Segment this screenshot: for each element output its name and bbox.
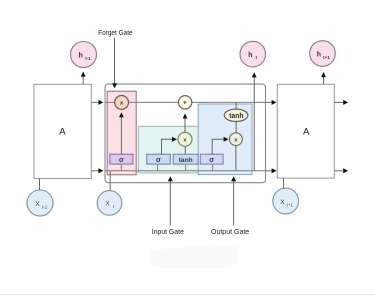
svg-text:σ: σ (156, 155, 161, 164)
node h[t+1] (310, 41, 336, 67)
output gate region (blue) (198, 104, 252, 175)
wire: A-left top to h[t-1] arrow (81, 71, 86, 84)
svg-text:t-1: t-1 (85, 56, 91, 61)
wire: h-line to tanh box (185, 164, 187, 171)
svg-text:tanh: tanh (229, 113, 243, 120)
svg-text:A: A (59, 126, 66, 137)
wire: Output Gate pointer arrow (231, 176, 236, 225)
node X[t] (97, 191, 122, 216)
block A left (34, 84, 91, 178)
wire: A-left to h-line arrow (91, 168, 103, 173)
input gate region (cyan) (138, 126, 198, 173)
wire: cell state C line (top horizontal) (105, 101, 266, 103)
svg-text:σ: σ (209, 155, 214, 164)
wire: h-line to sigma2 (157, 164, 159, 171)
wire: A-left to C-line arrow (91, 100, 103, 105)
node h[t-1] (71, 42, 97, 68)
wire: C-line branch down to tanh ellipse (235, 102, 237, 109)
wire: h-line exit to A-right arrow (266, 168, 277, 173)
node X[t+1] (273, 188, 299, 214)
wire: h_t riser from h-line up (252, 72, 257, 171)
svg-text:h: h (317, 52, 321, 59)
svg-text:t+1: t+1 (287, 202, 294, 207)
node X[t-1] (27, 190, 53, 216)
svg-text:t-1: t-1 (42, 204, 48, 209)
wire: tanh ellipse down to output multiply (235, 121, 237, 133)
bottom hairline (0, 294, 375, 295)
wire: output multiply down to h-line (235, 146, 237, 171)
wire: sigma2 elbow to input multiply arrow (162, 137, 178, 154)
svg-text:Output Gate: Output Gate (211, 227, 249, 236)
wire: X[t+1] to A-right (283, 178, 285, 188)
wire: C-line exit to A-right arrow (266, 100, 277, 105)
LSTM cell rectangle (105, 84, 266, 183)
wire: input multiply up to plus arrow (183, 114, 188, 133)
svg-text:h: h (79, 53, 83, 60)
tanh box (input) (173, 154, 198, 164)
wire: sigma1 up to forget multiply arrow (119, 112, 124, 154)
wire: h-line to sigma3 (212, 164, 214, 171)
forget gate region (pink) (107, 91, 136, 175)
block A right (277, 84, 334, 178)
svg-text:tanh: tanh (179, 157, 193, 164)
wire: hidden state h line (bottom horizontal) (105, 170, 266, 172)
sigma box 1 (forget) (110, 154, 133, 164)
wire: X[t] riser to h-line (109, 171, 111, 191)
plus node (178, 96, 191, 109)
svg-text:X: X (105, 201, 110, 208)
wire: A-right C output arrow (334, 100, 348, 105)
multiply node (input gate) (178, 132, 192, 146)
svg-text:t+1: t+1 (323, 55, 330, 60)
svg-text:Forget Gate: Forget Gate (98, 28, 133, 37)
wire: tanh box up to input multiply arrow (184, 146, 186, 154)
wire: Forget Gate pointer arrow (112, 38, 117, 89)
sigma box 3 (output) (200, 154, 223, 164)
wire: A-right h output arrow (334, 168, 348, 173)
svg-text:X: X (280, 199, 285, 206)
wire: h-line to sigma1 (120, 164, 122, 171)
sigma box 2 (input) (147, 154, 171, 164)
svg-text:X: X (35, 201, 40, 208)
tanh ellipse (224, 109, 248, 121)
svg-text:h: h (248, 52, 252, 59)
wire: Input Gate pointer arrow (168, 176, 173, 225)
faint watermark blob (148, 245, 238, 269)
multiply node (output gate) (230, 133, 243, 146)
wire: X[t-1] to A-left (39, 179, 41, 191)
svg-text:A: A (303, 126, 310, 137)
svg-text:σ: σ (119, 155, 124, 164)
wire: sigma3 elbow to output multiply arrow (212, 137, 228, 155)
multiply node (forget gate) (115, 96, 129, 110)
wire: A-right top to h[t+1] arrow (321, 72, 326, 84)
svg-text:Input Gate: Input Gate (152, 227, 184, 236)
svg-text:+: + (183, 100, 187, 107)
node h[t] (240, 41, 266, 67)
